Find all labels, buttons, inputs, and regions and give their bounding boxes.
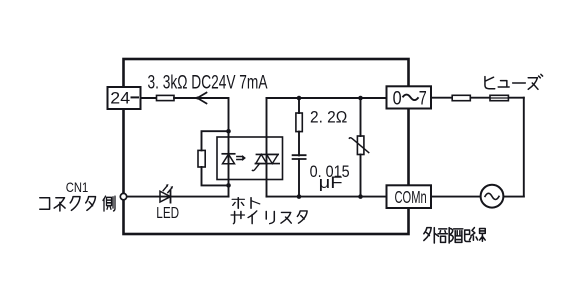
wire parallel resistor branch [202, 131, 229, 185]
svg-text:0: 0 [393, 88, 402, 109]
node junction bottom of LED branch [226, 183, 231, 188]
label サイリスタ (thyristor) [231, 211, 307, 224]
arrow (current direction) [197, 93, 206, 104]
LED indicator diode [160, 191, 171, 202]
resistor 2.2Ω [296, 113, 302, 132]
LED light arrows [163, 186, 172, 193]
svg-text:7: 7 [419, 88, 427, 109]
svg-text:24: 24 [110, 88, 130, 107]
wire top right net [267, 97, 387, 99]
wire 0~7 to fuse [431, 97, 524, 99]
resistor 3.3kΩ [157, 95, 175, 100]
svg-text:3. 3kΩ DC24V 7mA: 3. 3kΩ DC24V 7mA [148, 72, 268, 93]
capacitor 0.015uF [293, 155, 306, 159]
wire RC branch [298, 98, 300, 197]
label 外部配線 (external wiring) [424, 228, 485, 243]
wire COMn to AC source [431, 196, 524, 198]
external resistor/load box [452, 95, 470, 100]
svg-text:2. 2Ω: 2. 2Ω [310, 107, 347, 126]
wire LED branch vertical [228, 131, 230, 196]
fuse F1 [490, 95, 508, 100]
varistor (surge absorber) [357, 136, 364, 155]
wire varistor branch [360, 98, 362, 197]
AC source [481, 185, 504, 208]
wire resistor to corner [174, 98, 229, 131]
resistor (parallel with coupler LED) [198, 150, 205, 167]
label 24 minus dash [131, 96, 140, 98]
wire 24- box to resistor [141, 97, 157, 99]
node junction top of LED branch [226, 129, 231, 134]
label ヒューズ (fuse) [485, 74, 543, 89]
terminal box 0~7 [387, 86, 432, 108]
coupler LED (cathode bar + triangle) [222, 153, 234, 155]
wire bottom right net [267, 196, 387, 198]
wire CN1 to LED branch [127, 196, 229, 198]
svg-text:CN1: CN1 [66, 179, 89, 195]
photo thyristor (triac) symbol [256, 153, 278, 155]
triac gate [252, 164, 259, 171]
node junctions RC branch [297, 96, 302, 101]
connector pin circle CN1 [120, 193, 126, 199]
module outline (output module boundary) [124, 59, 409, 234]
label ホト (photo) [232, 198, 259, 209]
svg-text:μF: μF [319, 174, 343, 192]
wire right side down [523, 98, 525, 197]
label コネクタ側 (connector side) [40, 196, 115, 211]
node junctions varistor branch [358, 96, 363, 101]
svg-text:LED: LED [156, 205, 179, 222]
wire triac vertical [266, 98, 268, 197]
terminal box 24- [108, 87, 141, 109]
terminal box COMn [387, 185, 432, 208]
svg-text:COMn: COMn [395, 187, 427, 207]
light transfer double arrow [237, 157, 243, 160]
photocoupler box U1 [217, 137, 283, 180]
